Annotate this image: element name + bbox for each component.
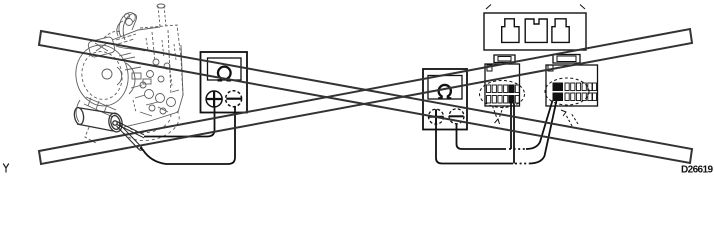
pulley clamp cross mark [95, 43, 108, 51]
U1 plus sign [207, 91, 222, 107]
compressor/engine assembly (left line art) [71, 4, 183, 143]
label Y (page marker) [3, 164, 9, 173]
test probe A (upper, to compressor connector) [117, 122, 144, 138]
cylinder bottom line [77, 124, 113, 131]
clamp arm to curl [104, 31, 121, 38]
J2 top tab [548, 65, 553, 71]
J1 latch outer [494, 55, 515, 63]
J2 probed terminal row1 (filled) [553, 83, 563, 91]
prohibition bar A (top-left to bottom-right) [39, 31, 692, 163]
J1 dashed inspection ellipse [480, 81, 525, 108]
U2 plus sign [429, 109, 444, 124]
J2 probed terminal row2 (filled) [553, 93, 563, 101]
connector terminal circle [113, 121, 117, 125]
U2 lead left dotted continuation [515, 163, 529, 165]
ohmmeter U2 (right) [423, 69, 467, 130]
bolt circle 2 [156, 94, 165, 103]
U1 minus terminal circle [226, 91, 242, 107]
U1 display window [208, 58, 242, 80]
U1 outer case [201, 52, 248, 113]
wire-harness connector J2 (far right) [545, 55, 598, 127]
cylinder top line [80, 108, 117, 114]
lower bracket strokes [85, 127, 96, 143]
pulley inner dashed rim [78, 48, 126, 102]
J1 probed terminal row1 (filled) [509, 85, 514, 93]
cavity 2 [525, 19, 547, 42]
bolt circle 6 [153, 59, 159, 65]
bolt circle 8 [147, 71, 154, 78]
body dashed texture [133, 38, 176, 112]
top bracket base lines [116, 34, 136, 44]
J2 latch inner [557, 56, 576, 62]
U2 display window [428, 76, 462, 100]
pulley clamp bracket [87, 36, 115, 58]
belt strap upper line [86, 97, 116, 110]
J1 top tab [487, 65, 492, 71]
top bracket boss circle [125, 14, 130, 19]
prohibition bar B (bottom-left to top-right) [39, 29, 692, 164]
body texture lines [120, 57, 145, 98]
U2 lead left rise to J2 [529, 101, 557, 164]
wire-harness connector J1 (center right) [480, 55, 525, 124]
J1 probe arrowhead [495, 119, 500, 124]
bolt circle 10 [140, 82, 146, 88]
J2 body [546, 65, 598, 106]
U2 plus terminal circle [429, 109, 444, 124]
U2 ohm symbol [438, 85, 451, 98]
top dashed post [158, 6, 166, 26]
U2 lead wire right (inner loop) [457, 124, 507, 149]
U2 lead right dotted continuation [509, 148, 526, 150]
body top dashed edge [140, 25, 181, 58]
left mount arc [76, 100, 80, 122]
pulley hub [102, 69, 112, 79]
J1 probed terminal row2 (filled) [509, 96, 514, 104]
U1 lead wire from plus terminal to probe A [144, 106, 215, 137]
J2 dashed inspection ellipse [545, 78, 589, 105]
svg-text:D26619: D26619 [681, 165, 713, 176]
housing break mark right [580, 5, 585, 10]
J2 terminal grid row 1 [565, 83, 597, 91]
U2 lead wire left (outer loop) [436, 124, 513, 164]
probe B tip [137, 145, 143, 151]
pulley outer rim [71, 41, 133, 110]
J2 probe arrowhead [561, 110, 566, 116]
U2 lead right rise to J2 [526, 101, 553, 150]
top bracket hook [117, 21, 123, 36]
bottom dashed flange arc [124, 111, 179, 141]
top post cap [157, 4, 165, 8]
J1 latch inner [498, 57, 511, 62]
U1 lead wire from minus terminal to probe B [140, 106, 235, 164]
bolt circle 1 [145, 90, 154, 99]
top bracket curve [123, 14, 136, 40]
housing break mark left [486, 5, 491, 10]
belt strap lower line [84, 104, 113, 117]
U2 minus sign [449, 115, 464, 117]
U2 minus terminal circle [449, 109, 464, 124]
probe wire into J1 terminal (from outer loop) [513, 104, 515, 164]
solenoid cylinder with connector [73, 107, 123, 133]
cylinder left end [73, 107, 84, 125]
U1 ohm symbol [218, 67, 232, 81]
pulley hub arc [117, 67, 122, 85]
J1 terminal grid row 1 [487, 85, 520, 93]
cavity 3 [552, 19, 569, 43]
body inner dashed contour 1 [168, 30, 171, 95]
body right dashed edge [181, 58, 183, 96]
U1 minus sign [226, 98, 241, 100]
body inner dashed contour 2 [152, 32, 155, 62]
J2 dashed probe arrow [566, 113, 578, 126]
top bracket small circle [126, 19, 133, 26]
cylinder right face outer [107, 112, 124, 133]
body small boss rect 2 [143, 79, 151, 84]
J1 body [485, 64, 520, 106]
belt strap hatches [88, 98, 107, 114]
cavity 1 [502, 19, 519, 43]
J1 terminal grid row 2 [487, 96, 520, 104]
body outline [112, 27, 183, 127]
test probe B (lower, to compressor connector) [117, 124, 144, 152]
J2 terminal grid row 2 [565, 93, 597, 101]
bolt circle 9 [158, 76, 164, 82]
body inner contour lines [116, 46, 145, 94]
bolt circle 7 [164, 63, 170, 69]
ECU connector housing (top right, broken-out view) [484, 5, 586, 51]
cylinder right face inner ring [110, 115, 122, 131]
housing outline [484, 13, 586, 50]
bolt circle 4 [149, 105, 155, 111]
U1 plus terminal circle [206, 91, 222, 107]
top bracket curl [119, 13, 135, 37]
ohmmeter U1 (left) [201, 52, 248, 113]
J1 dashed probe arrow [493, 106, 504, 117]
bolt circle 5 [160, 108, 166, 114]
J2 latch outer [553, 55, 580, 64]
bottom dashed flange arc 2 [130, 112, 171, 133]
probe wire into J1 terminal (from inner loop) [510, 104, 512, 150]
bolt circle 3 [167, 98, 176, 107]
body texture lines 2 [140, 90, 179, 116]
U2 outer case [423, 69, 467, 130]
body small boss rect [132, 73, 141, 79]
